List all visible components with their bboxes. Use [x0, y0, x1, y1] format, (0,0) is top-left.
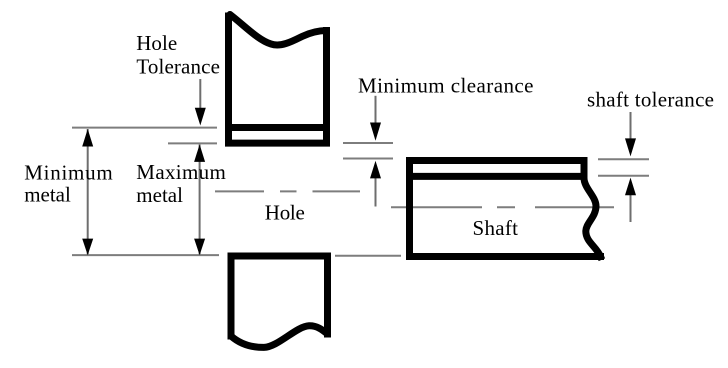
minimum clearance upper arrow (down) — [375, 96, 377, 125]
min clearance upper extension line — [343, 142, 393, 144]
shaft internal line (shaft min) — [410, 173, 585, 180]
shaft centerline (dashed) — [391, 206, 482, 208]
extension line bottom-left (minimum metal bottom) — [72, 254, 219, 256]
svg-text:Hole: Hole — [136, 31, 177, 55]
svg-text:Minimum: Minimum — [24, 161, 113, 185]
lower hole jaw block outline — [231, 256, 328, 336]
minimum metal dimension arrow (double) — [87, 129, 89, 255]
hole tolerance arrow (down) — [199, 79, 201, 111]
extension line hole-max (short gray line) — [168, 142, 217, 144]
min clearance lower extension line — [343, 158, 393, 160]
shaft outline — [410, 161, 585, 257]
svg-text:Shaft: Shaft — [473, 216, 519, 240]
shaft tolerance lower arrow (up) — [630, 194, 632, 222]
upper hole jaw block outline — [229, 16, 327, 143]
shaft wavy break line (right) — [584, 161, 601, 257]
maximum metal dimension arrow (double) — [199, 145, 201, 255]
extension line bottom-middle (between hole jaw and shaft) — [335, 255, 401, 257]
hole centerline (dashed) — [215, 190, 264, 192]
svg-text:Maximum: Maximum — [136, 160, 226, 184]
svg-text:Hole: Hole — [265, 201, 305, 225]
upper hole jaw internal line (hole min) — [229, 124, 327, 131]
minimum clearance lower arrow (up) — [375, 178, 377, 207]
shaft bottom edge — [410, 253, 601, 260]
upper hole jaw wavy break line (top) — [230, 15, 327, 45]
shaft tolerance lower extension line — [598, 175, 649, 177]
svg-text:metal: metal — [136, 183, 183, 207]
extension line hole-min (upper long gray line) — [72, 127, 217, 129]
svg-text:metal: metal — [24, 182, 71, 206]
svg-text:Minimum clearance: Minimum clearance — [358, 74, 534, 98]
shaft tolerance upper arrow (down) — [630, 112, 632, 140]
svg-text:shaft tolerance: shaft tolerance — [587, 88, 714, 112]
shaft tolerance upper extension line — [598, 158, 649, 160]
lower hole jaw wavy break line (bottom) — [231, 326, 328, 348]
svg-text:Tolerance: Tolerance — [136, 55, 220, 79]
